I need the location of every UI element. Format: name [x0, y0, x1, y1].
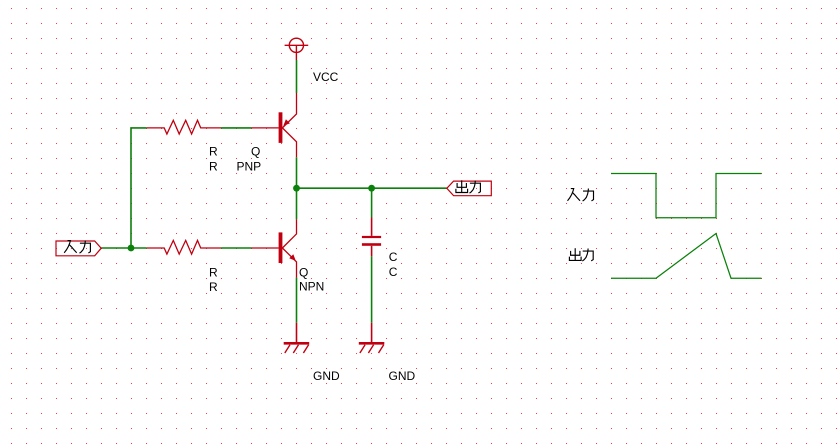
ground GND2 label	[389, 369, 416, 383]
capacitor C	[362, 218, 381, 257]
transistor Q2 (NPN)	[252, 219, 297, 277]
resistor R2 value label R	[209, 280, 218, 294]
svg-text:GND: GND	[313, 369, 340, 383]
transistor Q2 value label NPN	[299, 280, 324, 294]
resistor R2 reference label R	[209, 265, 218, 279]
resistor R1 reference label R	[209, 144, 218, 158]
power flag VCC	[285, 38, 309, 60]
input port label (flag)	[56, 241, 101, 256]
svg-text:C: C	[389, 265, 398, 279]
svg-text:Q: Q	[251, 144, 260, 158]
capacitor C value label C	[389, 265, 398, 279]
annotation: output waveform label	[569, 248, 593, 261]
wire: input node up to resistor R1 branch (vertical + horizontal)	[131, 128, 147, 248]
transistor Q1 (PNP)	[252, 93, 297, 157]
ground symbol GND2 (below C)	[359, 323, 385, 353]
ground GND1 label	[313, 369, 340, 383]
wire: output node down to Q2 collector	[296, 188, 298, 219]
svg-text:Q: Q	[299, 266, 308, 280]
resistor R2	[147, 240, 221, 254]
svg-text:C: C	[389, 250, 398, 264]
ground symbol GND1 (below Q2)	[284, 323, 310, 353]
transistor Q1 reference label Q	[251, 144, 260, 158]
svg-text:R: R	[209, 280, 218, 294]
junction: input node	[128, 245, 135, 252]
wire: output node to output label	[297, 187, 447, 189]
transistor Q1 value label PNP	[237, 159, 262, 173]
wire: capacitor C to ground	[371, 256, 373, 323]
output port label (flag)	[447, 180, 492, 195]
svg-text:VCC: VCC	[313, 70, 339, 84]
transistor Q2 reference label Q	[299, 266, 308, 280]
svg-text:GND: GND	[389, 369, 416, 383]
junction: output node at Q1/Q2 collectors	[293, 185, 300, 192]
annotation: input waveform (square pulse)	[611, 174, 762, 218]
junction: capacitor node	[368, 185, 375, 192]
svg-text:R: R	[209, 265, 218, 279]
annotation: output waveform (ramp)	[611, 234, 762, 279]
svg-text:R: R	[209, 159, 218, 173]
capacitor C reference label C	[389, 250, 398, 264]
wire: resistor R1 to Q1 base	[221, 127, 252, 129]
wire: Q1 collector to output node	[296, 157, 298, 188]
wire: input node to resistor R2 (horizontal)	[101, 247, 147, 249]
wire: VCC to Q1 emitter	[296, 60, 298, 93]
svg-text:PNP: PNP	[237, 159, 262, 173]
svg-text:NPN: NPN	[299, 280, 324, 294]
annotation: input waveform label	[568, 189, 594, 202]
resistor R1 value label R	[209, 159, 218, 173]
wire: Q2 emitter to ground	[296, 278, 298, 323]
label VCC	[313, 70, 339, 84]
wire: output node down to capacitor C	[371, 188, 373, 217]
wire: resistor R2 to Q2 base	[221, 247, 252, 249]
svg-text:R: R	[209, 144, 218, 158]
resistor R1	[147, 120, 221, 134]
